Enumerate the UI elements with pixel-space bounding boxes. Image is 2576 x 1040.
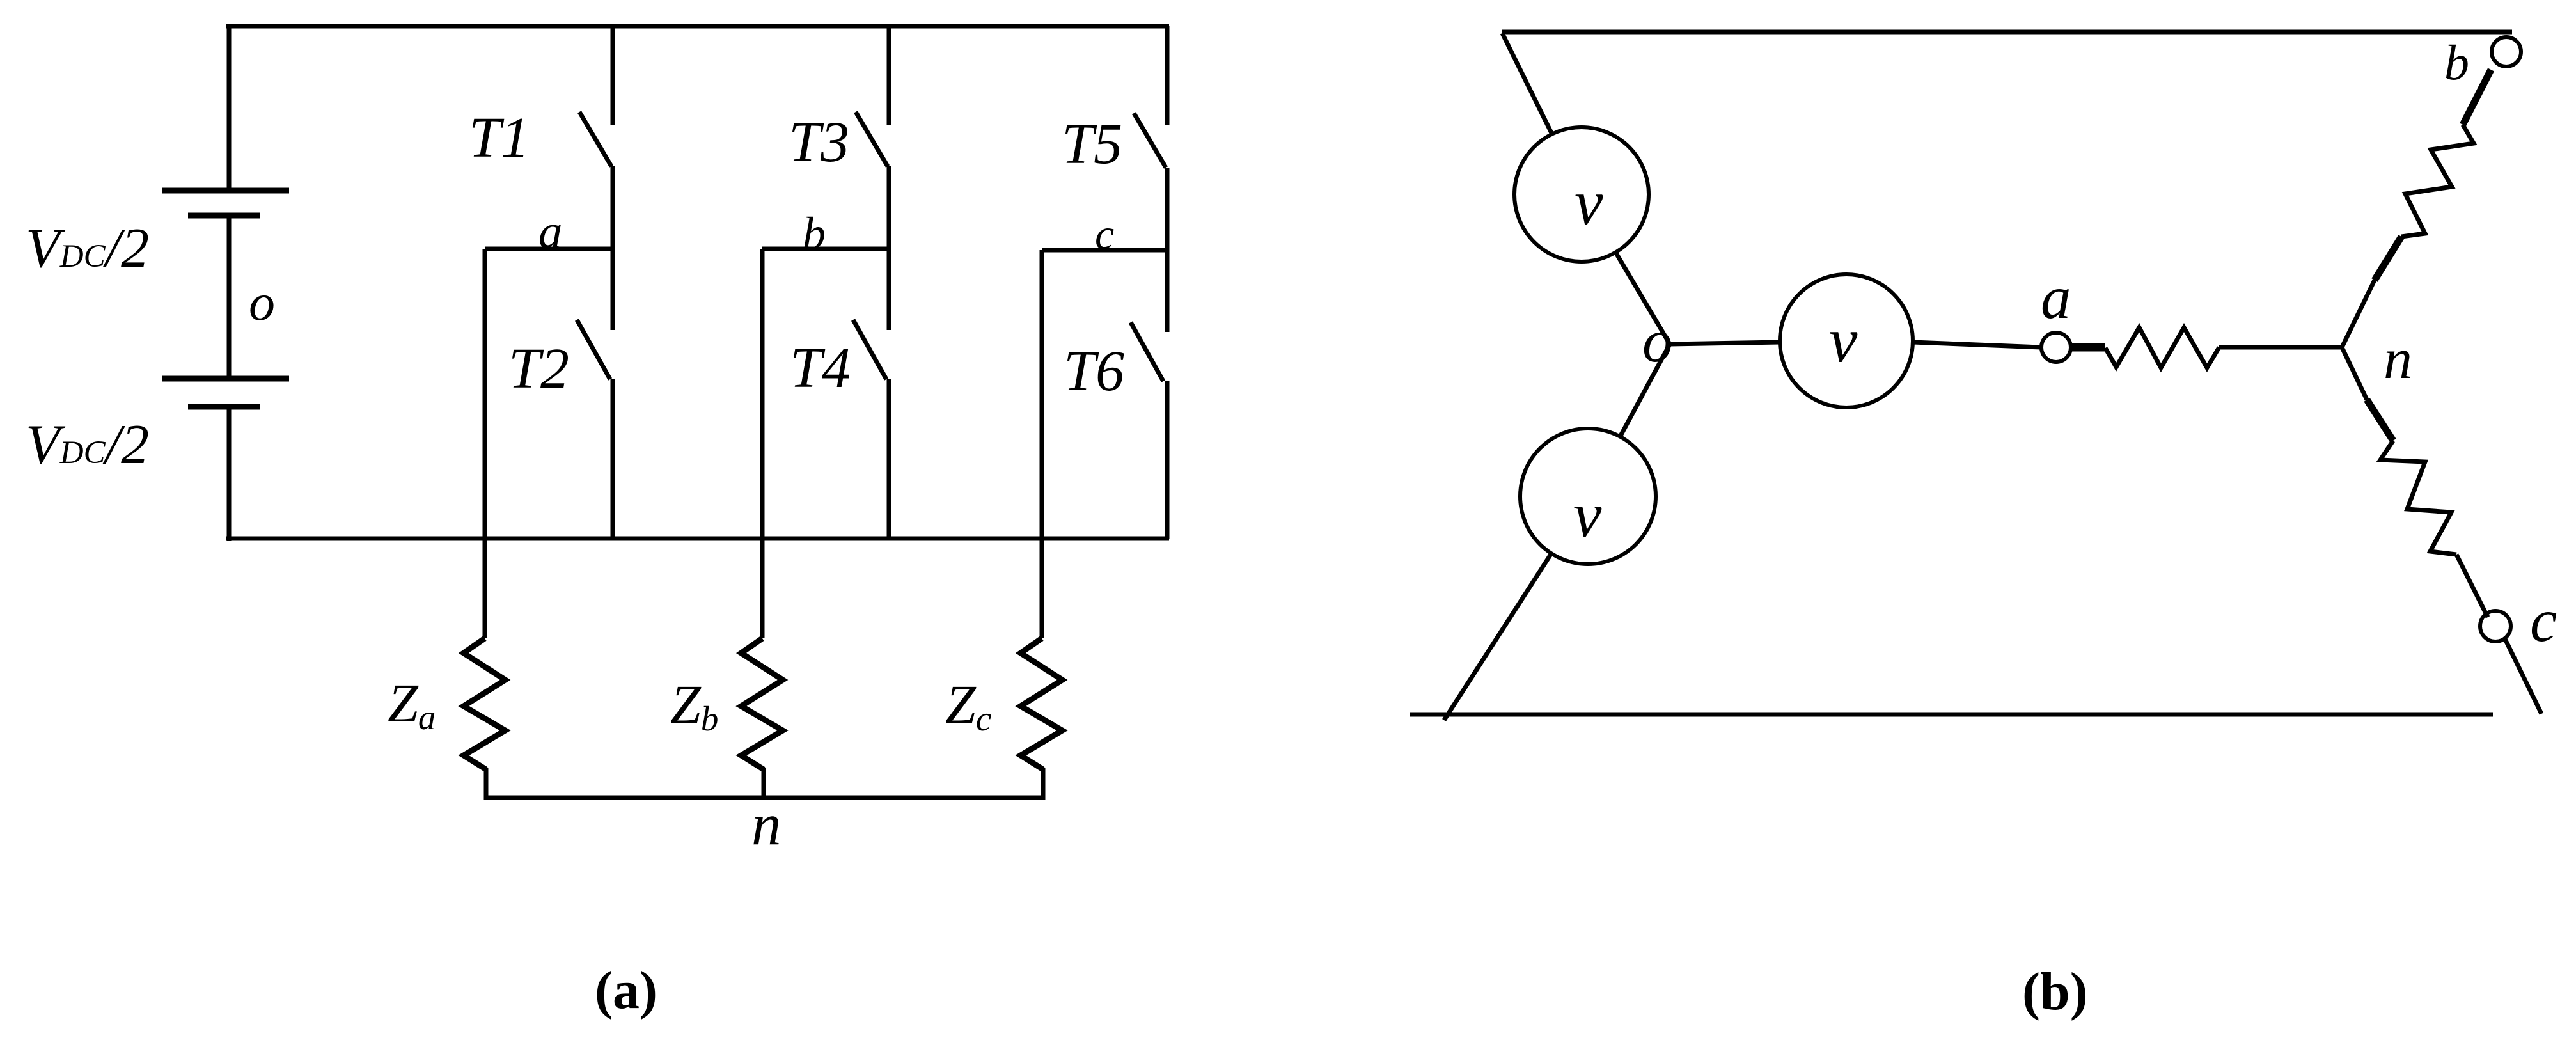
wire top-left diagonal to voltmeter	[1502, 33, 1552, 134]
terminal c	[2480, 611, 2511, 642]
node b wire	[762, 247, 889, 251]
svg-text:b: b	[2444, 35, 2469, 90]
wire battery to bottom rail	[227, 407, 232, 541]
transistor T3 switch: top stub	[887, 26, 891, 125]
transistor T6 switch: top stub	[1165, 250, 1170, 332]
wire resistor a to node n	[2219, 345, 2343, 350]
svg-text:(a): (a)	[595, 961, 657, 1020]
svg-text:n: n	[751, 792, 781, 858]
svg-text:v: v	[1829, 304, 1858, 375]
resistor Zc zigzag	[1021, 638, 1062, 769]
transistor T4 switch: blade	[853, 320, 886, 379]
node c wire	[1042, 248, 1167, 253]
svg-text:c: c	[1095, 210, 1114, 258]
battery VDC/2 lower: short plate	[188, 404, 260, 410]
resistor Za zigzag	[464, 638, 505, 769]
svg-text:T2: T2	[508, 337, 569, 400]
wire voltmeter oa to terminal a	[1913, 342, 2041, 347]
svg-text:T6: T6	[1064, 340, 1124, 403]
wire phase a output	[483, 249, 487, 638]
wire resistor c to terminal c	[2456, 555, 2488, 617]
wire top rail (a)	[226, 24, 1169, 29]
transistor T2 switch: lower contact	[611, 379, 615, 539]
transistor T6 switch: lower contact	[1165, 381, 1170, 539]
transistor T5 switch: lower contact	[1165, 168, 1170, 250]
wire phase c output	[1040, 250, 1044, 638]
node a wire	[485, 247, 613, 251]
wire left rail	[227, 24, 232, 191]
wire bottom rail (a)	[226, 537, 1169, 541]
svg-text:v: v	[1575, 167, 1603, 238]
resistor phase c staircase	[2380, 441, 2456, 555]
terminal a	[2041, 333, 2071, 362]
wire after terminal c	[2505, 639, 2541, 714]
transistor T4 switch: lower contact	[887, 379, 891, 539]
wire voltmeter oc to bottom line	[1444, 553, 1551, 720]
svg-text:T5: T5	[1062, 113, 1122, 176]
lead a thick	[2072, 343, 2105, 352]
svg-text:o: o	[1642, 307, 1673, 375]
svg-text:v: v	[1573, 479, 1602, 550]
transistor T5 switch: top stub	[1165, 26, 1170, 125]
lead b lower thick	[2375, 237, 2401, 280]
svg-text:o: o	[249, 273, 275, 331]
svg-text:a: a	[538, 205, 563, 258]
wire node n to resistor c	[2341, 346, 2367, 400]
lead c upper thick	[2367, 400, 2393, 441]
voltmeter V ob	[1514, 127, 1649, 262]
wire Zb to neutral	[762, 768, 766, 800]
transistor T2 switch: top stub	[611, 249, 615, 330]
voltmeter V oc	[1520, 429, 1656, 564]
wire Za to neutral	[484, 768, 489, 800]
wire neutral n	[484, 796, 1044, 800]
transistor T1 switch: top stub	[611, 26, 615, 125]
transistor T5 switch: blade	[1134, 113, 1166, 168]
wire Zc to neutral	[1041, 768, 1046, 800]
svg-text:T4: T4	[790, 336, 851, 400]
svg-text:b: b	[803, 208, 826, 259]
svg-text:a: a	[2041, 264, 2071, 331]
transistor T3 switch: lower contact	[887, 166, 891, 249]
svg-text:c: c	[2530, 587, 2557, 654]
wire phase b output	[760, 249, 765, 638]
transistor T2 switch: blade	[577, 320, 610, 379]
wire node o to voltmeter oa	[1670, 342, 1780, 344]
battery VDC/2 upper: long plate	[162, 188, 289, 194]
resistor Zb zigzag	[741, 638, 783, 769]
wire voltmeter ob to node o	[1615, 252, 1670, 344]
wire top line (b)	[1502, 30, 2512, 35]
svg-text:T3: T3	[789, 111, 849, 174]
transistor T1 switch: lower contact	[611, 166, 615, 249]
svg-text:n: n	[2384, 327, 2412, 391]
svg-text:T1: T1	[469, 106, 530, 169]
voltmeter V oa	[1780, 274, 1913, 407]
terminal b	[2492, 37, 2521, 67]
battery VDC/2 upper: short plate	[188, 213, 260, 219]
transistor T6 switch: blade	[1131, 322, 1163, 381]
lead b upper thick	[2463, 70, 2491, 125]
wire between batteries	[227, 216, 232, 379]
transistor T4 switch: top stub	[887, 249, 891, 330]
battery VDC/2 lower: long plate	[162, 376, 289, 382]
resistor phase b staircase	[2401, 125, 2474, 237]
resistor phase a zigzag	[2105, 327, 2219, 368]
transistor T3 switch: blade	[856, 112, 888, 166]
wire node n to resistor b	[2341, 280, 2375, 349]
transistor T1 switch: blade	[579, 112, 611, 166]
wire node o to voltmeter oc	[1619, 344, 1670, 438]
svg-text:(b): (b)	[2022, 962, 2088, 1021]
wire bottom line (b)	[1410, 713, 2493, 717]
